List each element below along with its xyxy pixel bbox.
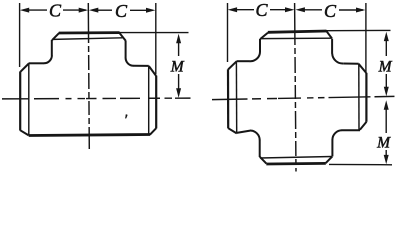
extension line right (C dim) (365, 3, 367, 72)
M dim shaft lower (178, 74, 180, 91)
M bottom shaft upper (385, 108, 387, 134)
svg-text:C: C (256, 0, 269, 20)
svg-text:M: M (170, 58, 185, 75)
left end bevel line (28, 64, 30, 135)
branch left wall bottom (259, 140, 261, 157)
C dim shaft 2a (96, 9, 112, 11)
NE crotch fillet (332, 54, 343, 64)
NW crotch fillet (249, 52, 260, 62)
svg-text:M: M (376, 134, 391, 151)
crotch fillet right (126, 57, 134, 65)
C dim shaft 1b (270, 9, 292, 11)
C dimension arrow right (356, 8, 365, 13)
branch NW chamfer (260, 33, 268, 40)
bottom face (thick) (29, 135, 150, 136)
M dim shaft upper (178, 41, 180, 56)
left end top chamfer (21, 64, 29, 72)
run top left (237, 60, 250, 62)
C dimension arrow at center (pointing left) (296, 7, 305, 12)
W end top chamfer (228, 61, 236, 69)
C dimension arrow at center (pointing right) (285, 7, 294, 12)
right end face (155, 76, 157, 129)
C dimension arrow at center (pointing left) (89, 8, 98, 13)
W end bottom chamfer (228, 128, 237, 133)
C dimension arrow right (146, 8, 155, 13)
M top arrow up (384, 32, 389, 41)
svg-text:C: C (324, 1, 337, 21)
branch left wall top (259, 39, 261, 52)
C dim shaft 1a (235, 9, 254, 11)
extension line right (C dim) (155, 3, 157, 74)
svg-text:C: C (115, 1, 128, 21)
C dim shaft 2b (130, 9, 153, 11)
C dimension arrow at center (pointing right) (79, 8, 88, 13)
M top shaft upper (385, 39, 387, 56)
E end bottom chamfer (360, 122, 367, 130)
run bottom left (237, 131, 251, 133)
C dim shaft 2b (339, 9, 363, 11)
left end face (19, 71, 21, 130)
C dimension arrow left (228, 7, 237, 12)
SW crotch fillet (250, 130, 260, 140)
M bottom arrow up (384, 100, 389, 109)
run top right (133, 65, 148, 67)
svg-text:M: M (378, 58, 393, 75)
run top left (29, 62, 44, 64)
right end bevel line (148, 66, 150, 134)
vertical centerline (88, 3, 89, 150)
top face extension line to M dim (326, 29, 390, 31)
M dim arrow up (176, 34, 181, 43)
M dim arrow down (176, 88, 181, 97)
branch NE chamfer (327, 31, 332, 38)
branch top-left chamfer (52, 33, 59, 40)
branch SW chamfer (260, 157, 267, 164)
left end bottom chamfer (20, 130, 28, 135)
top face extension line to M dim (120, 32, 189, 34)
branch right wall bottom (331, 140, 333, 157)
SE crotch fillet (332, 130, 342, 140)
bottom-right chamfer (150, 128, 156, 135)
E end bevel line (358, 64, 360, 130)
bottom face (thick) (266, 162, 326, 165)
horizontal centerline (212, 96, 395, 99)
W end face (227, 69, 229, 128)
run top right (343, 63, 359, 65)
branch top face (thick) (59, 31, 120, 34)
branch top-right chamfer (119, 33, 125, 41)
svg-text:C: C (49, 0, 62, 20)
M bottom arrow down (384, 155, 389, 164)
extension line left (C dim) (19, 3, 21, 67)
right end top chamfer (149, 66, 156, 76)
W end bevel line (235, 62, 237, 134)
top face (thick) (268, 31, 327, 32)
M top arrow down (384, 87, 389, 96)
M top shaft lower (385, 74, 387, 90)
run bottom right (342, 129, 360, 131)
ink speck (125, 114, 127, 118)
branch bevel line (54, 38, 123, 40)
branch right wall top (331, 39, 333, 54)
C dim shaft 1b (63, 9, 86, 11)
branch left wall (51, 40, 53, 56)
extension line left (C dim) (227, 3, 229, 62)
C dim shaft 2a (303, 9, 322, 11)
vertical centerline (295, 3, 296, 172)
branch SE chamfer (326, 156, 333, 163)
M bottom shaft lower (385, 150, 387, 157)
E end face (365, 73, 367, 122)
C dimension arrow left (20, 8, 29, 13)
bottom bevel line (260, 157, 332, 159)
E end top chamfer (359, 64, 367, 73)
branch right wall (125, 41, 127, 58)
C dim shaft 1a (27, 9, 47, 11)
top bevel line (261, 37, 331, 39)
crotch fillet left (44, 55, 52, 63)
bottom face extension line to M dim (329, 163, 392, 165)
horizontal centerline (2, 97, 191, 100)
